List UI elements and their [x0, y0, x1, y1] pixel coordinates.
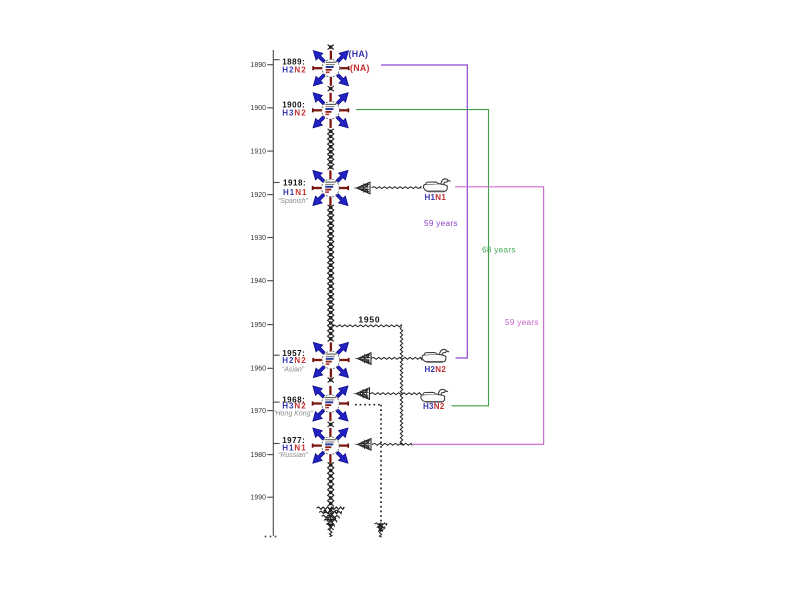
axis tick 1970 [267, 410, 273, 412]
arrowhead pointing left at 1918 virus [357, 182, 371, 194]
branch line from 1950 on main lineage going right [332, 325, 402, 327]
svg-text:1930: 1930 [250, 235, 266, 242]
chain segment between 1918 and 1957 viruses [328, 205, 334, 342]
svg-text:1960: 1960 [250, 366, 266, 373]
arrowhead pointing left at 1957 virus [358, 353, 372, 365]
svg-text:H3N2: H3N2 [282, 401, 306, 410]
svg-text:H3N2: H3N2 [423, 402, 445, 411]
svg-text:(NA): (NA) [350, 63, 370, 73]
svg-text:“Asian”: “Asian” [282, 367, 305, 374]
svg-text:H1N1: H1N1 [424, 193, 446, 202]
purple 59-years line from 1889 virus to H2N2 duck [381, 65, 467, 358]
wavy line from 59-years magenta line into 1977 virus [372, 443, 412, 445]
axis tick 1890 [267, 64, 273, 66]
arrowhead pointing left at 1968 virus [356, 388, 370, 400]
svg-text:1910: 1910 [250, 149, 266, 156]
svg-text:“Spanish”: “Spanish” [278, 198, 309, 205]
svg-text:1918:: 1918: [283, 179, 306, 188]
arrowhead pointing left at 1977 virus [358, 439, 372, 451]
svg-text:1950: 1950 [358, 315, 380, 325]
axis tick 1940 [267, 280, 273, 282]
svg-text:“Russian”: “Russian” [278, 452, 309, 459]
pandemic tick 1968 [273, 401, 279, 403]
pandemic tick 1918 [273, 182, 279, 184]
axis tick 1980 [267, 454, 273, 456]
svg-text:“Hong Kong”: “Hong Kong” [273, 411, 313, 418]
svg-text:1940: 1940 [250, 278, 266, 285]
wavy line from H3N2 duck to 1968 virus [370, 393, 421, 395]
svg-text:1980: 1980 [250, 452, 266, 459]
pandemic tick 1889 [273, 59, 279, 61]
duck H1N1 (1918 avian reservoir) [423, 179, 450, 192]
magenta 59-years line from H1N1 duck to 1977 virus [412, 187, 544, 445]
axis tick 1950 [267, 324, 273, 326]
axis tick 1990 [267, 496, 273, 498]
duck H2N2 (1957 avian reservoir) [422, 349, 449, 362]
wavy line from H1N1 duck to 1918 virus [372, 187, 422, 189]
axis tick 1900 [267, 107, 273, 109]
large arrowhead at bottom of main lineage [317, 507, 345, 537]
small arrowhead at bottom of dotted line [375, 523, 387, 537]
influenza virus 1968 [309, 382, 351, 424]
svg-text:H1N1: H1N1 [283, 188, 307, 197]
pandemic tick 1977 [273, 443, 279, 445]
chain segment between 1900 and 1918 viruses [328, 129, 334, 170]
chain segment between 1889 and 1900 viruses [328, 86, 334, 91]
influenza virus 1918 [309, 167, 351, 209]
axis tick 1930 [267, 237, 273, 239]
branch line vertical from 1950 down to 1977 [400, 327, 402, 445]
influenza virus 1977 [309, 424, 351, 466]
chain segment below 1977 virus [328, 462, 334, 506]
chain segment above 1889 virus [328, 45, 334, 50]
svg-text:H2N2: H2N2 [282, 356, 306, 365]
influenza virus 1957 [310, 339, 352, 381]
svg-text:1920: 1920 [250, 192, 266, 199]
influenza virus 1900 [309, 89, 351, 131]
timeline axis line [272, 50, 274, 536]
svg-text:1890: 1890 [250, 62, 266, 69]
chain segment between 1957 and 1968 viruses [328, 377, 334, 382]
influenza virus 1889 [310, 47, 352, 89]
svg-text:H3N2: H3N2 [282, 108, 306, 117]
svg-text:1900: 1900 [250, 105, 266, 112]
axis tick 1920 [267, 194, 273, 196]
svg-text:1950: 1950 [250, 322, 266, 329]
duck H3N2 (1968 avian reservoir) [421, 389, 448, 402]
axis continuation dots [265, 536, 277, 538]
svg-text:68 years: 68 years [482, 246, 516, 255]
svg-text:H1N1: H1N1 [282, 443, 306, 452]
dotted line vertical down from 1968 branch [380, 405, 382, 523]
green 68-years line from 1900 virus to H3N2 duck [356, 110, 489, 406]
axis tick 1960 [267, 367, 273, 369]
axis tick 1910 [267, 150, 273, 152]
svg-text:H2N2: H2N2 [282, 65, 306, 74]
svg-text:1990: 1990 [250, 495, 266, 502]
pandemic tick 1957 [273, 354, 279, 356]
wavy line from H2N2 duck to 1957 virus [371, 357, 422, 359]
svg-text:59 years: 59 years [424, 219, 458, 228]
svg-text:H2N2: H2N2 [424, 365, 446, 374]
dotted line from 1968 virus going right [355, 404, 381, 406]
chain segment between 1968 and 1977 viruses [328, 422, 334, 427]
svg-text:59 years: 59 years [505, 318, 539, 327]
svg-text:1970: 1970 [250, 408, 266, 415]
svg-text:(HA): (HA) [349, 49, 369, 59]
